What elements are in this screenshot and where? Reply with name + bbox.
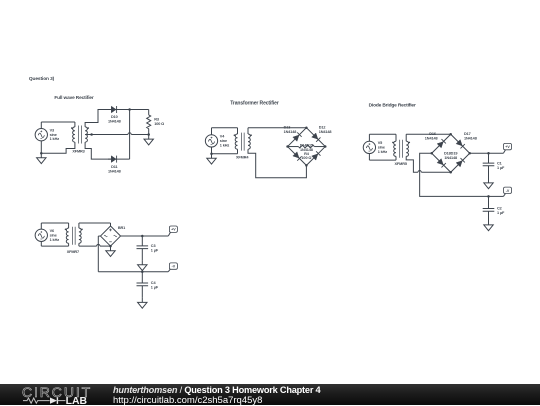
ground below R3 — [148, 135, 150, 140]
wire through D11 — [108, 158, 130, 160]
node bridge2 top — [305, 126, 308, 129]
transformer XFMR7 — [66, 228, 68, 243]
capacitor C4 — [137, 283, 149, 286]
svg-text:V6: V6 — [50, 229, 54, 233]
node C1 top junction — [487, 152, 490, 155]
wire C2 lead bottom — [488, 211, 490, 225]
wire XFMR7 primary stubs — [68, 223, 70, 228]
svg-text:1 kHz: 1 kHz — [220, 143, 230, 147]
node bridge3 right — [468, 152, 471, 155]
diode D13 (left-top) — [293, 135, 299, 141]
capacitor C2 — [483, 209, 495, 212]
svg-text:Transformer Rectifier: Transformer Rectifier — [230, 101, 279, 107]
voltage source V5 — [363, 141, 375, 153]
svg-text:100 Ω: 100 Ω — [154, 122, 164, 126]
wire hop over BR1 left line — [97, 244, 100, 246]
transformer XFMR3 — [73, 127, 75, 142]
wire C3 lead bottom — [141, 249, 143, 261]
node V3 bottom junction — [40, 152, 43, 155]
svg-text:D16: D16 — [429, 132, 436, 136]
svg-text:-V: -V — [172, 265, 176, 269]
node R3 bottom junction — [147, 133, 150, 136]
node top junction — [128, 108, 131, 111]
svg-text:XFMR5: XFMR5 — [395, 162, 407, 166]
svg-text:C1: C1 — [497, 161, 502, 165]
wire -V rail to flag c4 — [142, 271, 168, 273]
voltage source V4 — [205, 135, 217, 147]
wire top to R3 — [130, 109, 149, 111]
svg-text:V5: V5 — [378, 141, 382, 145]
svg-text:sine: sine — [378, 146, 385, 150]
svg-text:Question 3): Question 3) — [29, 76, 55, 82]
wire C4 lead bottom — [141, 286, 143, 298]
wire vertical D10-D11 join — [129, 110, 131, 160]
svg-text:sine: sine — [50, 233, 57, 237]
svg-text:Full wave Rectifier: Full wave Rectifier — [54, 95, 94, 100]
wire BR1 left vertex down to -V rail — [98, 235, 100, 237]
node bridge2 right — [324, 145, 327, 148]
transformer XFMR5 — [394, 141, 396, 156]
wire diag to +V flag c4 — [168, 232, 170, 236]
node C4 top junction — [141, 270, 144, 273]
wire C3 lead top — [141, 236, 143, 246]
wire -V rail to flag — [489, 195, 504, 197]
svg-text:100 Ω: 100 Ω — [301, 156, 311, 160]
svg-text:1 kHz: 1 kHz — [50, 137, 60, 141]
wire hop over left-vertex line — [418, 171, 421, 173]
bridge3 diamond wires — [432, 134, 470, 172]
ground below C2 — [488, 220, 490, 225]
svg-text:1N4148: 1N4148 — [108, 169, 121, 173]
svg-text:D14D15: D14D15 — [300, 143, 313, 147]
ground below C3 — [141, 260, 143, 265]
wire center tap to R3 bottom — [92, 134, 128, 136]
diode D15 (bottom-right) — [312, 154, 318, 160]
diode D18 (left-bottom) — [437, 159, 443, 165]
capacitor C1 — [483, 163, 495, 166]
diode D17 (top-right) — [456, 140, 462, 146]
wire XFMR3 primary top stub — [74, 122, 76, 127]
svg-text:Diode Bridge Rectifier: Diode Bridge Rectifier — [369, 103, 416, 109]
node C3 top junction — [141, 235, 144, 238]
flag +V — [504, 143, 512, 149]
wire C1 lead top — [488, 153, 490, 163]
wire C2 lead top — [488, 196, 490, 208]
svg-text:D18D19: D18D19 — [444, 152, 457, 156]
resistor R3 — [147, 115, 151, 129]
svg-text:1 kHz: 1 kHz — [378, 150, 388, 154]
ground below C1 — [488, 178, 490, 183]
svg-text:D10: D10 — [111, 115, 118, 119]
svg-text:1 µF: 1 µF — [151, 286, 159, 290]
node bridge3 top — [449, 133, 452, 136]
bridge diamond wires — [288, 128, 326, 166]
svg-text:XFMR3: XFMR3 — [72, 150, 84, 154]
node bridge2 left — [286, 145, 289, 148]
wire BR1 right to +V — [121, 235, 169, 237]
wire XFMR3 secondary bottom to D11 — [85, 142, 111, 159]
resistor R4 across bridge — [288, 146, 299, 148]
svg-text:+V: +V — [171, 228, 176, 232]
wire bridge3 right to +V — [470, 152, 504, 154]
svg-text:1 µF: 1 µF — [497, 166, 505, 170]
svg-text:1N4148: 1N4148 — [108, 120, 121, 124]
wire bridge3 left vertex down — [420, 153, 489, 196]
svg-text:1 µF: 1 µF — [151, 249, 159, 253]
svg-text:+V: +V — [505, 145, 510, 149]
transformer XFMR4 — [235, 134, 237, 149]
svg-text:1N4148: 1N4148 — [425, 137, 438, 141]
wire V3 top — [40, 122, 42, 129]
svg-text:-V: -V — [506, 189, 510, 193]
diode D19 (bottom-right) — [456, 161, 462, 167]
wire V4 bottom — [211, 147, 213, 154]
wire XFMR5 secondary top to bridge — [405, 134, 407, 141]
wire V6 bottom — [40, 241, 42, 246]
node bridge3 left — [430, 152, 433, 155]
svg-text:BR1: BR1 — [118, 226, 125, 230]
wire C4 lead top — [141, 272, 143, 283]
wire R3 bottom — [148, 129, 150, 135]
logo resistor-diode motif — [23, 398, 50, 403]
wire V6 top — [40, 223, 42, 229]
node BR1 bottom junction — [109, 245, 112, 248]
diode D11 1N4148 — [111, 156, 116, 163]
svg-text:1N4148: 1N4148 — [284, 130, 297, 134]
svg-text:C3: C3 — [151, 244, 156, 248]
svg-text:C2: C2 — [497, 207, 502, 211]
svg-text:LAB: LAB — [66, 397, 88, 406]
capacitor C3 — [137, 246, 149, 249]
wire XFMR3 secondary top to D10 — [85, 110, 111, 127]
wire V3 bottom — [40, 141, 42, 153]
svg-text:D11: D11 — [111, 165, 117, 169]
svg-text:1 kHz: 1 kHz — [50, 238, 60, 242]
wire V3 bottom to XFMR3 — [41, 142, 75, 153]
node C2 top junction — [487, 195, 490, 198]
svg-text:V3: V3 — [50, 128, 54, 132]
svg-text:1N4148: 1N4148 — [444, 156, 457, 160]
diode D16 (left-top) — [437, 142, 443, 148]
svg-text:sine: sine — [220, 139, 227, 143]
node V4 bottom junction — [210, 152, 213, 155]
svg-text:D17: D17 — [464, 132, 471, 136]
voltage source V3 — [35, 129, 47, 141]
diode D10 1N4148 — [111, 106, 116, 113]
wire bottom rail to bridge — [421, 171, 450, 173]
wire XFMR5 primary stubs — [395, 134, 397, 141]
diode D12 (top-right) — [312, 133, 318, 139]
bridge rectifier BR1 body — [100, 226, 120, 246]
ground below V4 — [211, 154, 213, 159]
diode D14 (left-bottom) — [293, 152, 299, 158]
wire through D10 — [108, 109, 130, 111]
wire XFMR4 secondary top to bridge — [247, 128, 249, 134]
svg-text:XFMR4: XFMR4 — [236, 155, 249, 159]
wire XFMR4 secondary bottom to bridge — [248, 149, 306, 178]
CircuitLab logo — [15, 384, 125, 405]
wire V5 top — [368, 134, 370, 141]
svg-text:XFMR7: XFMR7 — [67, 250, 79, 254]
node bridge3 bottom — [449, 171, 452, 174]
flag -V circuit4 — [169, 263, 177, 269]
svg-text:R3: R3 — [154, 118, 159, 122]
svg-text:D12: D12 — [319, 125, 326, 129]
svg-text:1N4148: 1N4148 — [464, 137, 477, 141]
svg-text:1 µF: 1 µF — [497, 211, 505, 215]
wire diag to +V flag — [503, 150, 505, 153]
ground below C4 — [141, 298, 143, 303]
svg-text:sine: sine — [50, 133, 57, 137]
wire XFMR5 secondary bottom — [406, 156, 418, 172]
svg-text:1N4148: 1N4148 — [319, 130, 332, 134]
ground below V3 — [40, 153, 42, 158]
wire V5 bottom — [368, 154, 370, 161]
wire XFMR7 secondary top to BR1 — [78, 223, 80, 228]
svg-text:D13: D13 — [284, 125, 291, 129]
flag +V circuit4 — [169, 226, 177, 232]
node bridge2 bottom — [305, 164, 308, 167]
wire XFMR7 secondary bottom to BR1 — [78, 243, 80, 246]
wire C1 lead bottom — [488, 166, 490, 183]
ground below BR1 — [110, 246, 112, 251]
wire XFMR4 primary stubs — [237, 128, 239, 134]
wire V4 top — [211, 128, 213, 135]
flag -V — [504, 187, 512, 193]
wire hop over vertical — [128, 133, 131, 135]
voltage source V6 — [35, 229, 47, 241]
